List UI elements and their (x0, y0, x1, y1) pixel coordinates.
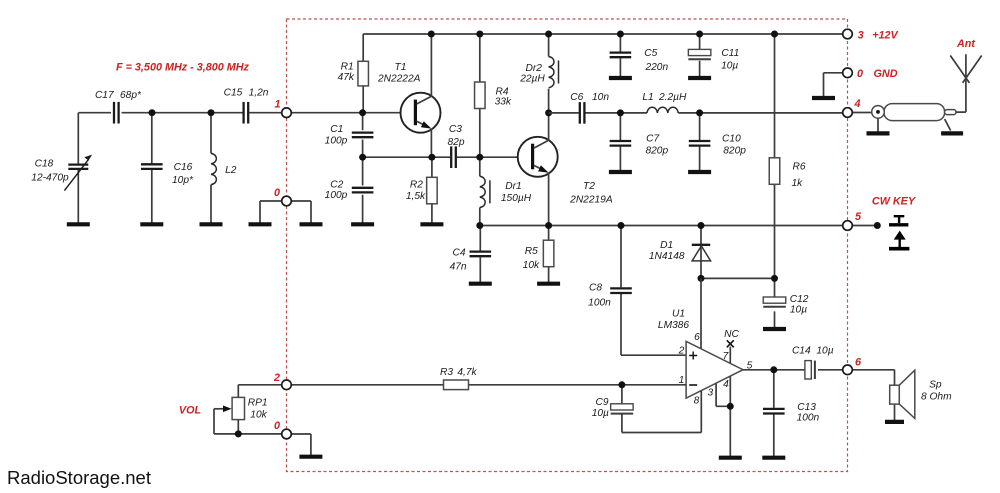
svg-text:8 Ohm: 8 Ohm (921, 391, 952, 402)
capacitor C17 68p* (114, 102, 119, 124)
svg-text:22µH: 22µH (519, 74, 545, 85)
svg-text:6: 6 (694, 332, 700, 343)
ground under C16 (140, 223, 163, 225)
transistor T1 (401, 93, 441, 133)
ground under C12 (763, 327, 786, 329)
ground under U1 pin 4 (719, 456, 742, 460)
svg-text:C5: C5 (644, 48, 657, 59)
svg-text:6: 6 (855, 357, 862, 369)
wire base line terminal1 to T1 (287, 112, 414, 114)
svg-text:C6: C6 (570, 92, 583, 103)
wire T1 emitter down (430, 129, 432, 158)
op-amp plus sign (689, 352, 697, 360)
node RP1 wiper/bottom junction (235, 430, 242, 437)
CW key symbol (889, 216, 909, 249)
terminal 4 (843, 108, 853, 118)
capacitor C16 (141, 164, 163, 169)
svg-text:C13: C13 (797, 402, 816, 413)
svg-text:C14: C14 (792, 346, 811, 357)
svg-text:Dr1: Dr1 (505, 181, 521, 192)
svg-text:1: 1 (274, 99, 280, 111)
node T1 emitter/R2 junction (428, 154, 435, 161)
svg-text:1k: 1k (792, 178, 804, 189)
ground under C18 (67, 223, 90, 225)
wire C5 leads (619, 34, 621, 77)
svg-text:68p*: 68p* (120, 90, 142, 101)
svg-text:10µ: 10µ (816, 346, 833, 357)
ground under coax right (slanted leg) (941, 119, 963, 133)
antenna symbol (950, 54, 981, 83)
wire T2 collector up (548, 113, 550, 140)
ground under C13 (762, 456, 785, 460)
node Dr2 on rail (545, 31, 552, 38)
wire Dr2 leads (548, 34, 550, 113)
inductor Dr1 (480, 176, 485, 207)
svg-text:R1: R1 (341, 61, 354, 72)
ground at GND terminal (812, 96, 835, 100)
terminal 3 (843, 29, 853, 39)
speaker Sp (890, 370, 915, 418)
wire terminal 2 to RP1 (238, 385, 286, 398)
node T1 collector on rail (428, 31, 435, 38)
wire RP1 bottom lead (237, 420, 239, 434)
wire terminal 4 to coax (848, 112, 873, 114)
wire C2 leads (362, 157, 364, 223)
node C5 on rail (617, 31, 624, 38)
ground under C2 (351, 223, 374, 225)
svg-text:+12V: +12V (872, 30, 898, 42)
svg-text:R3: R3 (440, 367, 453, 378)
svg-text:4: 4 (723, 379, 729, 390)
capacitor C8 (610, 288, 632, 293)
op-amp minus sign (689, 384, 697, 386)
svg-text:F = 3,500 MHz - 3,800 MHz: F = 3,500 MHz - 3,800 MHz (116, 61, 250, 73)
svg-text:10µ: 10µ (592, 408, 609, 419)
wire emitter bus (363, 156, 531, 158)
svg-text:82p: 82p (448, 137, 465, 148)
wire C10 leads (699, 113, 701, 170)
svg-text:C2: C2 (330, 179, 343, 190)
node C9 on pin1 line (618, 381, 625, 388)
svg-text:10µ: 10µ (721, 61, 738, 72)
node D1 anode junction (698, 275, 705, 282)
node T2 collector/Dr2/C6 (545, 109, 552, 116)
svg-text:NC: NC (724, 329, 739, 340)
wire terminal 6 to speaker (848, 370, 895, 420)
svg-text:VOL: VOL (179, 405, 201, 417)
capacitor C13 (763, 409, 785, 414)
ground under R5 (537, 282, 560, 284)
capacitor C1 (352, 133, 374, 138)
svg-text:1,5k: 1,5k (406, 191, 426, 202)
ground under L2 (200, 223, 223, 225)
svg-text:R2: R2 (410, 179, 423, 190)
wire C11 leads (699, 34, 701, 77)
inductor L2 leads (210, 113, 212, 223)
inductor L2 (211, 153, 216, 184)
svg-text:RadioStorage.net: RadioStorage.net (7, 467, 151, 488)
node R6 on rail (771, 31, 778, 38)
svg-text:2N2219A: 2N2219A (569, 195, 613, 206)
wire C8 leads (621, 226, 686, 356)
svg-text:47n: 47n (450, 262, 467, 273)
svg-text:10n: 10n (592, 92, 609, 103)
node C8 on bus (618, 222, 625, 229)
node C7/L1 junction (617, 109, 624, 116)
wire R4 leads (479, 34, 481, 157)
svg-text:2.2µH: 2.2µH (658, 92, 687, 103)
wire collector node to C6 (549, 112, 579, 114)
svg-text:100p: 100p (325, 136, 348, 147)
resistor R6 (769, 158, 780, 185)
capacitor C7 (610, 141, 632, 146)
svg-text:C7: C7 (646, 134, 659, 145)
svg-text:GND: GND (874, 68, 898, 80)
capacitor C2 (352, 188, 374, 193)
svg-text:7: 7 (723, 351, 729, 362)
capacitor C4 (470, 252, 492, 257)
svg-text:C11: C11 (721, 48, 739, 59)
node T2 emitter/R5 on bus (545, 222, 552, 229)
svg-text:8: 8 (694, 396, 700, 407)
wire C16 leads (151, 113, 153, 223)
svg-text:10k: 10k (523, 260, 540, 271)
svg-text:820p: 820p (723, 146, 746, 157)
svg-text:100p: 100p (325, 190, 348, 201)
svg-text:C3: C3 (449, 124, 462, 135)
wire terminal 0 left bracket (260, 201, 311, 223)
svg-text:0: 0 (857, 68, 863, 80)
wire GND terminal to ground (824, 73, 848, 97)
wire L1 to terminal 4 (678, 112, 847, 114)
wire terminal 0 bottom to ground (287, 434, 311, 455)
op-amp U1 LM386 triangle (686, 341, 743, 398)
ground under C4 (469, 282, 492, 284)
svg-text:3: 3 (707, 387, 713, 398)
node R6/C12 junction (771, 275, 778, 282)
node C17/C16 junction (149, 109, 156, 116)
node C3/R4/Dr1/T2-base junction (476, 154, 483, 161)
dashed enclosure box (287, 19, 848, 472)
node C1/C2 junction (359, 154, 366, 161)
node Dr1/C4 on bus (476, 222, 483, 229)
svg-text:C4: C4 (452, 248, 465, 259)
node pin3/pin4 junction (727, 403, 734, 410)
wire R5 leads (548, 226, 550, 283)
terminal 5 (843, 221, 853, 231)
svg-text:C17: C17 (95, 90, 114, 101)
wire C1 leads (362, 113, 364, 158)
terminal 0 left (282, 196, 292, 206)
resistor R4 (475, 82, 486, 109)
svg-text:150µH: 150µH (501, 193, 532, 204)
svg-text:C9: C9 (595, 397, 608, 408)
wire C4 leads (479, 226, 481, 283)
node C15/L2 junction (208, 109, 215, 116)
svg-text:C15: C15 (224, 88, 243, 99)
wire C9 bottom to pin 8 (622, 391, 701, 433)
ground left of terminal 0 (249, 222, 272, 226)
svg-text:CW KEY: CW KEY (872, 196, 917, 208)
svg-text:220n: 220n (644, 62, 668, 73)
svg-text:C12: C12 (790, 294, 809, 305)
capacitor C9 (electrolytic) (611, 404, 634, 414)
ground right of terminal 0 (300, 222, 323, 226)
wire U1 pin 7 NC (729, 347, 731, 364)
resistor R5 (543, 240, 554, 267)
svg-text:10p*: 10p* (172, 175, 194, 186)
capacitor C12 (electrolytic) (763, 297, 786, 307)
wire R2 leads (431, 157, 433, 223)
capacitor C14 (electrolytic) (805, 361, 815, 379)
inductor Dr2 (549, 57, 554, 88)
wire C7 leads (619, 113, 621, 170)
terminal 1 (282, 108, 292, 118)
svg-text:T2: T2 (583, 181, 595, 192)
terminal 6 (843, 365, 853, 375)
wire D1 leads (700, 226, 702, 279)
node R4 on rail (476, 31, 483, 38)
wire C9 top lead (621, 385, 623, 404)
capacitor C11 (electrolytic) (688, 49, 711, 59)
wire supply node D1 to R6/C12 (701, 277, 775, 279)
wire U1 output to C14 (743, 369, 805, 371)
svg-text:100n: 100n (588, 298, 611, 309)
capacitor C3 82p (451, 146, 456, 168)
svg-text:R5: R5 (525, 246, 538, 257)
svg-text:T1: T1 (395, 62, 407, 73)
node D1 on bus (698, 222, 705, 229)
inductor Dr1 core line (489, 180, 491, 203)
wire R6 leads (774, 34, 776, 278)
wire keyed bus (480, 225, 878, 227)
ground under C7 (609, 170, 632, 172)
resistor R1 (358, 61, 369, 86)
node R1/C1/base junction (359, 109, 366, 116)
node C13 on output (770, 366, 777, 373)
ground under coax left (867, 118, 890, 133)
node L1/C10 junction (696, 109, 703, 116)
inductor Dr2 core line (558, 61, 560, 84)
svg-text:2N2222A: 2N2222A (377, 74, 421, 85)
svg-text:4,7k: 4,7k (457, 367, 477, 378)
wire T2 emitter down (548, 173, 550, 226)
svg-text:2: 2 (273, 372, 280, 384)
terminal 0 right (843, 68, 853, 78)
terminal 0 bottom (282, 429, 292, 439)
svg-text:3: 3 (858, 30, 864, 42)
wire C12 leads (774, 278, 776, 327)
svg-text:0: 0 (274, 187, 280, 199)
wire U1 pin 3 (716, 384, 730, 407)
capacitor C18 (variable) (64, 155, 92, 191)
wire C13 leads (773, 370, 775, 456)
svg-text:100n: 100n (797, 413, 820, 424)
wire C18 leads (77, 113, 79, 223)
transistor T2 (518, 137, 558, 177)
ground under speaker (885, 420, 904, 424)
svg-text:Ant: Ant (956, 38, 975, 50)
svg-text:820p: 820p (645, 146, 668, 157)
svg-text:5: 5 (855, 211, 862, 223)
ground under C11 (688, 76, 711, 78)
wire R1 leads (362, 34, 364, 113)
wire C14 to terminal 6 (818, 369, 848, 371)
svg-text:10µ: 10µ (790, 305, 807, 316)
resistor R2 (427, 177, 438, 204)
svg-text:C16: C16 (174, 162, 193, 173)
ground under R2 (420, 223, 443, 225)
inductor L1 (647, 107, 678, 113)
diode D1 (692, 245, 711, 261)
node C11 on rail (696, 31, 703, 38)
svg-text:U1: U1 (672, 308, 685, 319)
ground under C5 (609, 76, 632, 78)
terminal 2 (282, 380, 292, 390)
svg-text:1,2n: 1,2n (249, 88, 269, 99)
ground under C10 (688, 170, 711, 172)
svg-text:4: 4 (853, 98, 860, 110)
capacitor C5 (610, 53, 632, 58)
svg-text:1N4148: 1N4148 (649, 251, 685, 262)
wire Dr1 leads (479, 157, 481, 225)
svg-text:C8: C8 (589, 283, 602, 294)
wire U1 pin 6 supply (700, 278, 702, 348)
wire coax to antenna (956, 80, 966, 113)
svg-text:RP1: RP1 (248, 398, 268, 409)
svg-text:LM386: LM386 (658, 320, 689, 331)
svg-text:R6: R6 (792, 162, 805, 173)
capacitor C6 10n (580, 102, 585, 124)
svg-text:C10: C10 (722, 134, 741, 145)
node key connection (874, 222, 881, 229)
capacitor C10 (689, 141, 711, 146)
svg-text:0: 0 (274, 420, 280, 432)
NC cross mark (727, 340, 734, 347)
wire input top rail C18-C17-C15-terminal1 (78, 112, 286, 114)
svg-text:Sp: Sp (929, 379, 942, 390)
svg-text:47k: 47k (338, 72, 355, 83)
svg-text:33k: 33k (495, 96, 512, 107)
svg-text:10k: 10k (250, 410, 267, 421)
svg-text:Dr2: Dr2 (525, 63, 542, 74)
wire U1 pin 4 to ground (729, 376, 731, 456)
wire C6 to L1 (586, 112, 648, 114)
svg-text:12-470p: 12-470p (31, 173, 69, 184)
svg-text:C1: C1 (330, 124, 343, 135)
wire +12V rail (363, 33, 847, 35)
svg-text:C18: C18 (35, 159, 54, 170)
wire T1 collector to rail (430, 34, 432, 96)
potentiometer RP1 (232, 397, 244, 419)
coax connector (872, 104, 956, 121)
capacitor C15 1,2n (244, 102, 249, 124)
potentiometer RP1 wiper arrow (214, 406, 287, 434)
resistor R3 (444, 380, 469, 390)
svg-text:2: 2 (678, 346, 685, 357)
svg-text:D1: D1 (660, 240, 673, 251)
svg-text:L1: L1 (642, 92, 653, 103)
wire terminal 2 line to R3 and U1 pin 1 (287, 384, 687, 386)
ground at bottom terminal 0 (299, 455, 322, 459)
svg-text:L2: L2 (225, 165, 237, 176)
